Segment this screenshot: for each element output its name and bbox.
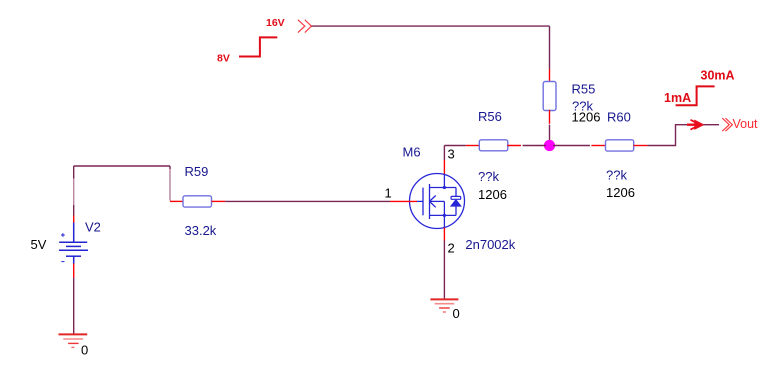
R59 left pin lead xyxy=(170,200,183,202)
R56 left pin lead xyxy=(466,145,480,147)
svg-text:V2: V2 xyxy=(85,220,101,235)
body diode cathode bar xyxy=(451,196,461,199)
R60 right pin lead xyxy=(634,145,648,147)
svg-text:0: 0 xyxy=(81,343,88,358)
resistor R55 body xyxy=(543,82,556,111)
battery V2 xyxy=(59,223,88,264)
body circle xyxy=(410,174,465,229)
M6 gate pin lead (pin 1) xyxy=(390,200,417,202)
svg-text:R59: R59 xyxy=(185,164,209,179)
plate 1 long xyxy=(59,241,87,243)
wire: R55 to junction xyxy=(549,125,551,141)
plate 3 long xyxy=(59,249,88,251)
junction node dot xyxy=(544,140,555,151)
wire: vertical drop to R55 xyxy=(549,26,551,69)
wire: R59 to M6 gate xyxy=(225,200,390,202)
bulk-source vertical xyxy=(443,201,445,215)
wire: drop to R59 (pale segment) xyxy=(169,169,171,201)
body diode triangle xyxy=(451,200,460,206)
svg-text:1206: 1206 xyxy=(606,185,635,200)
body diode branch lower xyxy=(455,206,457,215)
R55 bottom pin lead xyxy=(549,111,551,124)
svg-text:R56: R56 xyxy=(478,109,502,124)
svg-text:1206: 1206 xyxy=(572,110,601,125)
bulk stub with arrow xyxy=(430,200,445,202)
svg-text:30mA: 30mA xyxy=(701,69,735,83)
wire: source to ground xyxy=(443,241,445,300)
svg-text:33.2k: 33.2k xyxy=(185,223,217,238)
bottom lead xyxy=(73,256,75,263)
R59 right pin lead xyxy=(212,200,226,202)
plate 2 short xyxy=(66,245,81,247)
svg-text:5V: 5V xyxy=(31,237,47,252)
current probe arrow on output wire xyxy=(687,120,704,130)
svg-text:M6: M6 xyxy=(403,145,421,160)
svg-text:1mA: 1mA xyxy=(664,91,691,105)
M6 source pin lead (pin 2) xyxy=(443,228,445,241)
wire: top rail from input port to R55 branch xyxy=(312,25,550,27)
wire: drain corner to R56 xyxy=(444,145,465,147)
svg-text:??k: ??k xyxy=(478,169,499,184)
channel bar xyxy=(429,184,431,219)
R60 left pin lead xyxy=(591,145,605,147)
drain stub xyxy=(430,187,457,189)
svg-text:??k: ??k xyxy=(606,168,627,183)
source junction dot xyxy=(443,214,446,217)
resistor R60 body xyxy=(606,140,634,151)
wire: R56 corner down to M6 drain xyxy=(443,146,445,161)
input port chevron xyxy=(298,20,312,33)
wire: drop to R59 (upper corner) xyxy=(169,166,171,169)
R56 right pin lead xyxy=(508,145,521,147)
transistor M6 (NMOS 2n7002k) xyxy=(410,174,465,229)
svg-text:R60: R60 xyxy=(607,110,631,125)
svg-text:16V: 16V xyxy=(266,17,285,29)
current stimulus step waveform xyxy=(676,86,715,105)
resistor R56 body xyxy=(479,140,508,151)
M6 drain pin lead (pin 3) xyxy=(443,160,445,175)
wire: top-left horizontal rail xyxy=(74,165,170,167)
svg-text:1206: 1206 xyxy=(478,187,507,202)
plus mark xyxy=(61,233,65,237)
ground symbol under M6 xyxy=(430,299,458,312)
svg-text:8V: 8V xyxy=(217,53,230,65)
resistor R59 body xyxy=(183,196,212,207)
R55 top pin lead xyxy=(549,69,551,82)
ground symbol under V2 xyxy=(59,334,88,347)
gate internal lead xyxy=(417,200,424,202)
wire: R56 to junction xyxy=(523,145,546,147)
wire: arrow to output port xyxy=(704,124,720,126)
drain junction dot xyxy=(443,186,446,189)
minus mark xyxy=(61,261,64,263)
svg-text:3: 3 xyxy=(448,147,455,162)
voltage stimulus step waveform xyxy=(239,37,277,56)
svg-text:Vout: Vout xyxy=(733,117,759,131)
drain internal vertical xyxy=(443,175,445,188)
body diode branch upper xyxy=(455,188,457,197)
V2 bottom pin lead xyxy=(73,264,75,278)
output port chevron xyxy=(722,118,732,131)
wire: battery top rail (vertical, mixed colors) xyxy=(73,166,75,223)
top lead xyxy=(73,223,75,243)
svg-text:0: 0 xyxy=(453,306,460,321)
wire: junction to R60 xyxy=(553,145,590,147)
svg-text:2n7002k: 2n7002k xyxy=(465,237,515,252)
svg-text:R55: R55 xyxy=(572,82,596,97)
plate 4 short xyxy=(66,255,81,257)
wire: battery to ground xyxy=(73,278,75,335)
source internal vertical xyxy=(443,215,445,227)
wire: R60 to output corner xyxy=(647,125,687,146)
gate bar xyxy=(422,188,424,216)
svg-text:1: 1 xyxy=(385,185,392,200)
svg-text:2: 2 xyxy=(448,240,455,255)
source stub xyxy=(430,214,457,216)
